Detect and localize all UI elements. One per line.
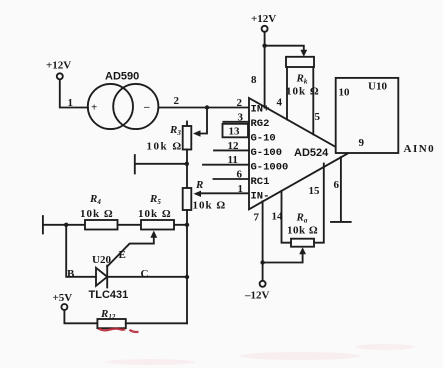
svg-text:+12V: +12V [46,60,71,72]
svg-text:C: C [141,268,149,280]
svg-text:15: 15 [309,185,321,197]
svg-text:Rk: Rk [296,73,308,86]
svg-text:U20: U20 [92,254,111,266]
svg-text:R5: R5 [149,193,161,206]
svg-text:AD590: AD590 [105,71,139,83]
svg-text:1: 1 [238,183,244,195]
svg-text:10k Ω: 10k Ω [193,200,227,212]
svg-text:10k Ω: 10k Ω [147,141,183,153]
svg-text:R: R [195,179,203,191]
svg-text:6: 6 [334,179,340,191]
svg-text:AD524: AD524 [294,147,329,159]
svg-text:6: 6 [237,169,243,181]
svg-text:R4: R4 [89,193,101,206]
svg-text:G-10: G-10 [251,133,276,145]
svg-text:4: 4 [277,97,283,109]
svg-text:10k Ω: 10k Ω [80,208,114,220]
svg-text:7: 7 [254,212,260,224]
svg-text:10k Ω: 10k Ω [286,86,320,98]
svg-text:+12V: +12V [251,13,276,25]
svg-text:B: B [67,268,75,280]
svg-text:IN-: IN- [251,191,270,203]
svg-text:+5V: +5V [53,292,73,304]
svg-text:RC1: RC1 [251,176,270,188]
svg-text:2: 2 [237,97,243,109]
svg-text:Ra: Ra [296,212,308,225]
svg-text:12: 12 [228,140,240,152]
svg-text:U10: U10 [368,81,387,93]
svg-text:2: 2 [174,95,180,107]
svg-text:13: 13 [229,126,241,138]
svg-text:RG2: RG2 [251,118,270,130]
svg-text:G-100: G-100 [251,147,283,159]
svg-text:10: 10 [339,87,351,99]
svg-text:G-1000: G-1000 [251,162,289,174]
svg-text:R3: R3 [169,124,181,137]
svg-text:10k Ω: 10k Ω [138,208,172,220]
svg-text:E: E [119,249,126,261]
svg-text:9: 9 [359,137,365,149]
svg-text:AIN0: AIN0 [404,143,436,155]
svg-text:IN+: IN+ [251,104,270,116]
svg-text:–: – [143,101,150,113]
svg-text:8: 8 [251,74,257,86]
svg-text:+: + [91,102,97,114]
svg-text:3: 3 [238,112,244,124]
svg-text:TLC431: TLC431 [89,289,129,301]
svg-text:11: 11 [228,154,238,166]
svg-text:1: 1 [68,97,74,109]
svg-text:10k Ω: 10k Ω [287,225,318,237]
svg-text:5: 5 [315,111,321,123]
svg-text:14: 14 [272,211,284,223]
svg-text:–12V: –12V [244,290,270,302]
svg-text:R12: R12 [100,308,116,321]
